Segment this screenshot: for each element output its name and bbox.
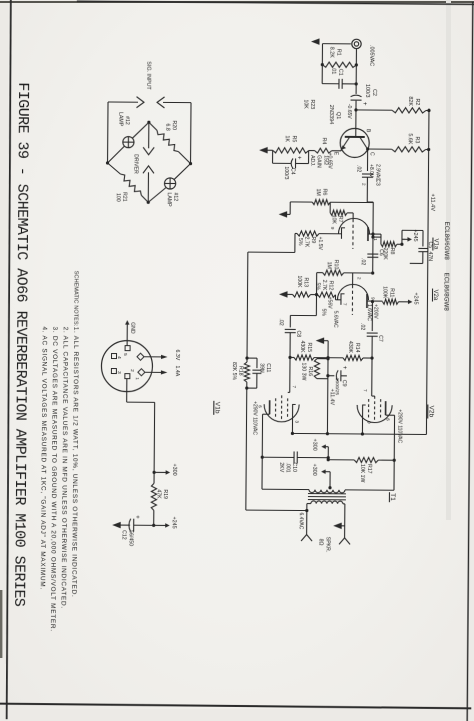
capacitor C5 47N (402, 230, 433, 263)
socket pin 2 (125, 369, 135, 379)
capacitor C2 100/3 electrolytic (350, 84, 377, 106)
svg-text:1: 1 (134, 377, 140, 380)
wire collector node (366, 147, 369, 171)
power socket P1 (101, 340, 152, 391)
svg-text:+: + (296, 156, 302, 160)
svg-text:ECL86/6GW8: ECL86/6GW8 (443, 222, 450, 261)
svg-text:+: + (341, 366, 347, 370)
wire jack to ground rail (322, 44, 351, 84)
svg-text:5%: 5% (315, 283, 321, 291)
resistor R4 15ohm gain adjust (309, 138, 332, 169)
wire R9 to feedback line (248, 233, 297, 252)
svg-text:+245: +245 (412, 292, 418, 304)
capacitor C10 .001 2KV (262, 451, 330, 473)
svg-text:47N: 47N (427, 251, 433, 261)
emitter chain wire (332, 150, 342, 151)
wire bridge feed top (190, 103, 192, 164)
V2a plate (367, 294, 383, 308)
bridge node W (147, 121, 150, 124)
V1a cathode (319, 227, 345, 239)
wire C2 to Q1 base (354, 101, 357, 132)
svg-text:15Ω: 15Ω (323, 155, 329, 165)
schematic notes text (38, 270, 79, 632)
wire bridge feed bottom (107, 102, 109, 163)
pentode V2b envelope (357, 405, 392, 423)
resistor R11 100K (381, 286, 398, 304)
label V2a cathode voltages (320, 297, 338, 328)
svg-text:C12: C12 (121, 530, 127, 540)
svg-text:#12: #12 (124, 116, 130, 125)
svg-text:5: 5 (122, 353, 128, 356)
wire V2b plate to transformer (345, 415, 396, 490)
svg-text:6.3V: 6.3V (174, 350, 180, 361)
svg-text:R10: R10 (333, 260, 339, 270)
ground R6 (279, 202, 313, 218)
svg-text:SPKR.: SPKR. (324, 537, 330, 553)
input jack J1 (352, 39, 375, 66)
svg-text:R20: R20 (171, 120, 177, 130)
svg-text:+290V 110VAC: +290V 110VAC (396, 409, 402, 443)
wire R4 to R5/C4 node (273, 150, 315, 163)
svg-text:1000/25: 1000/25 (334, 378, 340, 396)
svg-text:C6: C6 (378, 249, 384, 256)
svg-text:R13: R13 (303, 278, 309, 288)
socket pin 4 (112, 354, 123, 360)
wire R14-R15 junction to cathode rail (314, 356, 343, 359)
svg-text:+300: +300 (171, 463, 177, 475)
svg-text:.02: .02 (278, 318, 284, 325)
svg-text:R12: R12 (328, 281, 334, 291)
capacitor C4 100/3 electrolytic (272, 156, 308, 180)
label V2a plate voltage (366, 304, 379, 321)
svg-text:R6: R6 (321, 189, 327, 196)
svg-text:100/3: 100/3 (283, 166, 289, 179)
svg-text:100: 100 (115, 193, 121, 202)
wire V1b plate to transformer (260, 414, 309, 489)
speaker terminal upper (339, 538, 350, 545)
wire V2a grid node (344, 273, 373, 285)
svg-text:+1.5V: +1.5V (317, 237, 323, 251)
svg-text:C: C (369, 152, 375, 156)
svg-text:39N: 39N (258, 363, 264, 373)
svg-text:82K: 82K (407, 96, 413, 106)
figure title (10, 82, 31, 607)
resistor R10 1M (323, 260, 344, 276)
transformer T1 primary (309, 490, 345, 493)
socket pin 5 (122, 346, 130, 357)
svg-text:1K: 1K (284, 135, 290, 142)
resistor R15 430K (290, 340, 314, 360)
page edge shadow top (0, 1, 474, 3)
lamp #12 (SW edge) (108, 112, 149, 163)
svg-text:+300: +300 (311, 464, 317, 476)
wire +11.4V drop to cathodes (291, 432, 427, 436)
svg-text:R21: R21 (121, 192, 127, 202)
svg-text:R14: R14 (354, 343, 360, 353)
input connector pair (108, 96, 191, 108)
ground emitter (259, 147, 273, 154)
capacitor C6 .02 (360, 249, 384, 266)
svg-text:SIG. INPUT: SIG. INPUT (145, 61, 151, 90)
svg-text:2.7K: 2.7K (303, 237, 309, 248)
svg-text:C1: C1 (337, 69, 343, 76)
bridge node S (106, 161, 109, 164)
svg-text:10K: 10K (302, 100, 308, 110)
label V1b plate voltage (251, 401, 257, 435)
label ECL86/6GW8 V1a (432, 222, 450, 261)
resistor R2 82K (356, 96, 429, 113)
wire R8 to +245 (397, 230, 405, 246)
svg-text:430K: 430K (299, 340, 305, 353)
svg-text:+: + (134, 515, 140, 519)
svg-text:82K 5%: 82K 5% (231, 362, 237, 381)
wire secondary top / speaker (343, 504, 345, 538)
supply +300 screens (311, 439, 330, 462)
svg-text:.005VAC: .005VAC (368, 45, 374, 66)
svg-text:R9: R9 (310, 237, 316, 244)
resistor R18 82K 5% (231, 362, 250, 382)
ground cathode network (316, 337, 329, 343)
svg-text:DRIVER: DRIVER (132, 154, 138, 174)
capacitor C3 .02 (355, 165, 380, 186)
socket pin heater A (137, 353, 144, 360)
resistor R7 10K grid stopper (330, 202, 353, 224)
wire plate to C7 (371, 300, 374, 331)
wire secondary bottom (298, 503, 311, 534)
resistor R12 2.7K 5% (314, 280, 335, 298)
paper crease shadow (446, 0, 451, 520)
wire R19 to +245 node (152, 510, 155, 527)
svg-text:R8: R8 (389, 248, 395, 255)
resistor R1 8.2K (322, 47, 356, 68)
bridge node E (147, 201, 150, 204)
V2b plate (386, 401, 395, 421)
lamp #12 (NE edge) (148, 163, 190, 207)
capacitor C8 .02 (278, 318, 302, 337)
svg-text:+300: +300 (311, 439, 317, 451)
capacitor C11 39N (245, 356, 271, 389)
resistor R6 1M (312, 189, 330, 205)
svg-text:2: 2 (129, 369, 135, 372)
svg-text:+: + (361, 102, 367, 106)
capacitor C9 1000/25 electrolytic (328, 366, 347, 396)
resistor R5 1K (273, 135, 309, 153)
svg-text:100/3: 100/3 (364, 84, 370, 98)
label R23 10K (302, 100, 315, 110)
resistor R20 6.8 (NW edge) (149, 120, 191, 163)
label T1 (389, 492, 396, 502)
resistor R14 430K (343, 341, 372, 361)
svg-text:R4: R4 (321, 138, 327, 145)
label SIG. INPUT (145, 61, 151, 90)
svg-text:56/450: 56/450 (128, 530, 134, 546)
svg-text:C2: C2 (371, 89, 377, 96)
svg-text:C11: C11 (265, 363, 271, 372)
V2a cathode (335, 294, 347, 306)
wire socket pin2 to supply rail (126, 379, 155, 484)
wire R10 to cathode divider (317, 273, 323, 295)
svg-text:LAMP: LAMP (166, 192, 172, 207)
wire cathodyne node (290, 293, 318, 328)
V1b plate (258, 400, 270, 414)
wire plate node V1a (371, 234, 381, 244)
ground speaker line (333, 523, 345, 529)
svg-text:C3: C3 (374, 179, 380, 186)
svg-text:V2b: V2b (428, 405, 435, 417)
+11.4V rail (425, 108, 436, 434)
svg-text:R1: R1 (335, 49, 341, 56)
V2b grids (dashed) (369, 396, 381, 420)
svg-text:R2: R2 (414, 98, 420, 105)
svg-text:GAIN: GAIN (316, 155, 322, 168)
svg-text:R18: R18 (237, 366, 243, 376)
resistor R13 100K (292, 275, 310, 297)
svg-text:C7: C7 (377, 335, 383, 342)
wire grid drop V1a (330, 201, 373, 203)
svg-text:10K 1W: 10K 1W (359, 464, 365, 483)
svg-text:1.4A: 1.4A (174, 366, 180, 377)
resistor R19 47K (151, 483, 168, 510)
svg-text:100K: 100K (381, 286, 387, 299)
transformer T1 secondary (311, 501, 343, 504)
GND lead (125, 320, 135, 346)
svg-text:.02: .02 (359, 323, 365, 330)
svg-text:R3: R3 (414, 136, 420, 143)
resistor R16 130 3W (300, 358, 328, 380)
svg-text:5%: 5% (320, 309, 326, 317)
svg-text:.01: .01 (330, 67, 336, 75)
label speaker (317, 537, 330, 553)
capacitor C7 .02 (359, 323, 383, 342)
svg-text:R11: R11 (388, 288, 394, 297)
resistor R17 10K 1W (328, 457, 394, 483)
V1b grid 1 lead (288, 382, 297, 392)
svg-text:430K: 430K (347, 341, 353, 354)
svg-text:ECL86/8GW8: ECL86/8GW8 (442, 273, 449, 312)
supply +245 tap (154, 516, 177, 528)
supply +300 transformer center tap (311, 464, 332, 490)
cathode rail +11.4V (326, 341, 335, 433)
svg-text:5%: 5% (297, 238, 303, 246)
svg-text:.001: .001 (285, 462, 291, 472)
svg-text:2.7K: 2.7K (321, 280, 327, 291)
svg-text:10K: 10K (331, 215, 337, 225)
feedback rail (246, 252, 311, 512)
bridge node N (189, 162, 192, 165)
resistor R9 2.7K 5% (297, 231, 323, 251)
transformer T1 core (308, 494, 346, 500)
svg-text:+8.0V: +8.0V (368, 164, 374, 178)
label V2b plate voltage (396, 409, 402, 443)
V1b grids (dashed) (276, 395, 288, 419)
svg-text:8Ω: 8Ω (318, 539, 324, 546)
svg-text:R5: R5 (291, 135, 297, 142)
svg-text:SCHEMATIC NOTES:: SCHEMATIC NOTES: (72, 271, 78, 327)
svg-text:3: 3 (116, 371, 122, 374)
driver connector pair (132, 122, 154, 202)
resistor R3 5.6K (368, 133, 429, 152)
wire C8 to V1b grid (288, 333, 292, 383)
svg-text:100K: 100K (296, 275, 302, 288)
svg-text:5.6K: 5.6K (407, 133, 413, 145)
svg-text:.02: .02 (360, 258, 366, 265)
svg-text:R16: R16 (307, 367, 313, 377)
svg-text:2KV: 2KV (278, 462, 284, 472)
svg-text:ADJ.: ADJ. (309, 155, 315, 166)
svg-text:+56V: +56V (326, 297, 332, 310)
heater supply arrows 6.3V 1.4A (144, 349, 180, 376)
svg-text:LAMP: LAMP (117, 112, 123, 127)
svg-text:5.6VAC: 5.6VAC (332, 311, 338, 328)
svg-text:6.8: 6.8 (164, 123, 170, 130)
V2b cathode (362, 405, 371, 433)
svg-text:GND: GND (129, 322, 135, 334)
capacitor C12 56/450 electrolytic (121, 515, 154, 546)
svg-text:R17: R17 (366, 464, 372, 474)
capacitor C1 .01 (322, 67, 356, 89)
label ECL86/8GW8 V2a (432, 273, 450, 312)
svg-text:R23: R23 (309, 100, 315, 110)
resistor R8 220K (381, 242, 397, 261)
triode V1a envelope (338, 218, 369, 234)
svg-text:Q1: Q1 (335, 112, 341, 120)
svg-text:1M: 1M (315, 189, 321, 196)
supply +300 tap (152, 463, 177, 475)
V1a plate (368, 227, 381, 241)
svg-text:#12: #12 (172, 192, 178, 201)
V2b grid 1 lead (363, 386, 375, 396)
svg-text:+11.4V: +11.4V (429, 194, 435, 212)
svg-text:47K: 47K (155, 489, 161, 499)
ground input (311, 38, 320, 44)
svg-text:+245: +245 (412, 229, 418, 241)
svg-text:C8: C8 (295, 330, 301, 337)
triode V2a envelope (337, 284, 368, 300)
supply +245 V1a (402, 229, 418, 241)
socket pin 3 (111, 369, 122, 375)
svg-text:+290V 110VAC: +290V 110VAC (251, 401, 257, 435)
V1b cathode (292, 404, 299, 432)
ground C12 (112, 522, 121, 528)
wire jack line (320, 48, 358, 94)
svg-text:6.4VAC: 6.4VAC (298, 512, 304, 529)
svg-text:1M: 1M (326, 262, 332, 269)
wire C3 to grid network (361, 177, 375, 275)
svg-text:C5: C5 (427, 241, 433, 248)
svg-text:C9: C9 (341, 380, 347, 387)
wire C7 to V2b grid (370, 336, 374, 386)
svg-text:+200V: +200V (372, 304, 378, 319)
svg-text:R7: R7 (337, 216, 343, 223)
page edge shadow left (0, 590, 2, 658)
svg-text:C10: C10 (291, 462, 297, 472)
svg-text:2N3394: 2N3394 (328, 105, 334, 125)
label V1b (214, 401, 221, 415)
speaker terminal lower (301, 535, 312, 542)
svg-text:4: 4 (116, 356, 122, 359)
svg-text:+245: +245 (171, 516, 177, 528)
svg-text:.02: .02 (355, 165, 361, 172)
ground R13 (279, 291, 293, 298)
socket pin heater B (134, 369, 145, 381)
svg-text:V1b: V1b (214, 402, 221, 414)
supply +245 V2a (398, 292, 418, 304)
svg-text:R19: R19 (162, 489, 168, 499)
svg-text:1.6VAC: 1.6VAC (366, 304, 372, 321)
svg-text:C4: C4 (289, 168, 295, 175)
V2a grid (dashed) (351, 285, 353, 315)
label collector voltages (368, 164, 381, 181)
svg-text:8.2K: 8.2K (328, 47, 334, 59)
svg-text:-0.65V: -0.65V (346, 104, 352, 119)
label V2b (428, 404, 435, 418)
pentode V1b envelope (264, 404, 299, 422)
transistor Q1 2N3394 (327, 104, 376, 170)
V1a grid (dashed) (352, 219, 354, 249)
resistor R21 100 (SE edge) (107, 163, 148, 202)
svg-text:130 3W: 130 3W (300, 362, 306, 380)
svg-text:R15: R15 (306, 343, 312, 353)
